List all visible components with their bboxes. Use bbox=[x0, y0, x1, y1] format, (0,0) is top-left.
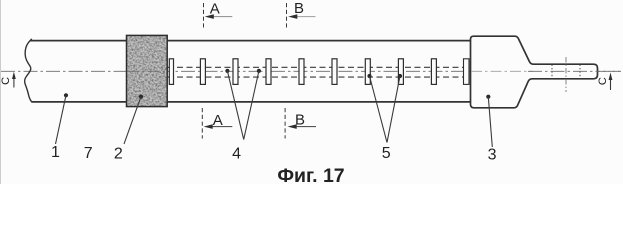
svg-text:1: 1 bbox=[51, 144, 60, 161]
disc fin 9 bbox=[431, 59, 436, 85]
disc fin 3 bbox=[233, 59, 238, 85]
svg-text:B: B bbox=[294, 0, 304, 17]
hidden dotted line on shank right bbox=[579, 65, 581, 79]
disc fin 6 bbox=[332, 59, 337, 85]
disc fin 7 bbox=[365, 59, 370, 85]
disc fin 10 at head bbox=[464, 59, 470, 85]
svg-text:C: C bbox=[597, 77, 609, 85]
leader for label 4 bbox=[225, 69, 261, 140]
hidden outline dashed line upper bbox=[168, 66, 471, 68]
break (wavy) line at left end of tube bbox=[25, 39, 32, 102]
leader for label 1 bbox=[56, 93, 69, 144]
section line B-B bottom bbox=[285, 108, 316, 139]
hidden outline dashed line lower bbox=[168, 76, 471, 78]
svg-text:A: A bbox=[213, 112, 223, 129]
svg-text:4: 4 bbox=[232, 145, 241, 162]
svg-text:A: A bbox=[210, 1, 220, 18]
disc fin 8 bbox=[398, 59, 403, 85]
damper block 2 (hatched) bbox=[127, 35, 168, 106]
section line A-A bottom bbox=[202, 108, 232, 139]
svg-text:5: 5 bbox=[382, 145, 391, 162]
svg-text:7: 7 bbox=[84, 145, 93, 162]
tube body 1: bottom line bbox=[32, 101, 471, 103]
svg-text:2: 2 bbox=[114, 146, 123, 163]
centerline over shank bbox=[528, 70, 620, 72]
tube body 1: top line bbox=[30, 40, 471, 42]
section line A-A top bbox=[204, 1, 233, 28]
disc fin 5 bbox=[299, 59, 304, 85]
centerline axis bbox=[1, 70, 621, 72]
hidden dotted line on shank left bbox=[551, 65, 553, 79]
view arrow C right bbox=[597, 73, 613, 91]
disc fin at block bbox=[169, 59, 173, 85]
scan edge artifact bbox=[0, 0, 2, 184]
center mark on shank bbox=[565, 57, 567, 92]
svg-text:Фиг. 17: Фиг. 17 bbox=[277, 165, 344, 184]
section line B-B top bbox=[287, 0, 316, 28]
view arrow C left bbox=[0, 72, 16, 88]
svg-text:B: B bbox=[295, 112, 305, 129]
svg-text:C: C bbox=[0, 77, 12, 85]
disc fin 2 bbox=[200, 59, 205, 85]
svg-text:3: 3 bbox=[488, 147, 497, 164]
centerline stub inside head block bbox=[471, 70, 533, 72]
leader for label 5 bbox=[367, 74, 402, 143]
head block 3 with shank bbox=[471, 36, 598, 108]
leader for label 2 bbox=[124, 95, 143, 145]
leader for label 3 bbox=[486, 95, 492, 147]
disc fin 4 bbox=[266, 59, 271, 85]
